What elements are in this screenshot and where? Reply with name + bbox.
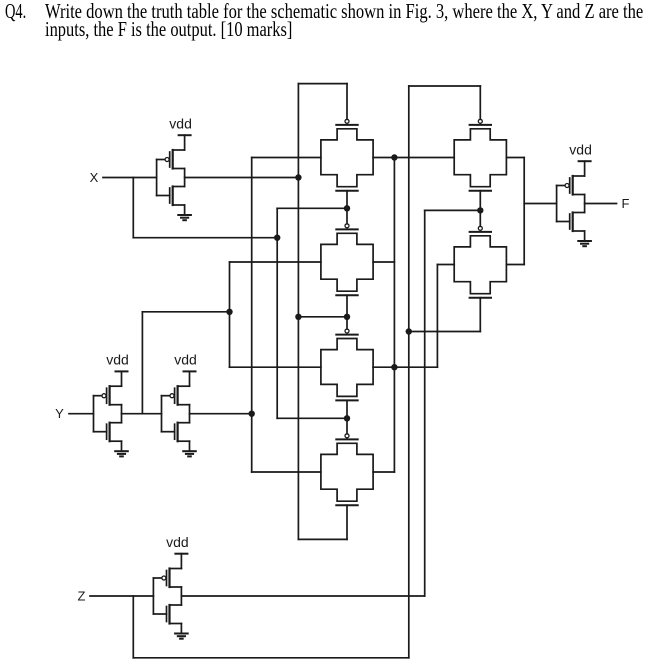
svg-text:vdd: vdd [569,142,592,158]
svg-text:Z: Z [78,589,86,604]
svg-text:X: X [90,170,99,185]
svg-text:vdd: vdd [174,352,197,368]
svg-text:F: F [622,196,630,211]
svg-text:Y: Y [55,406,64,421]
svg-text:vdd: vdd [166,534,189,550]
svg-text:vdd: vdd [169,116,192,132]
svg-text:vdd: vdd [106,352,129,368]
